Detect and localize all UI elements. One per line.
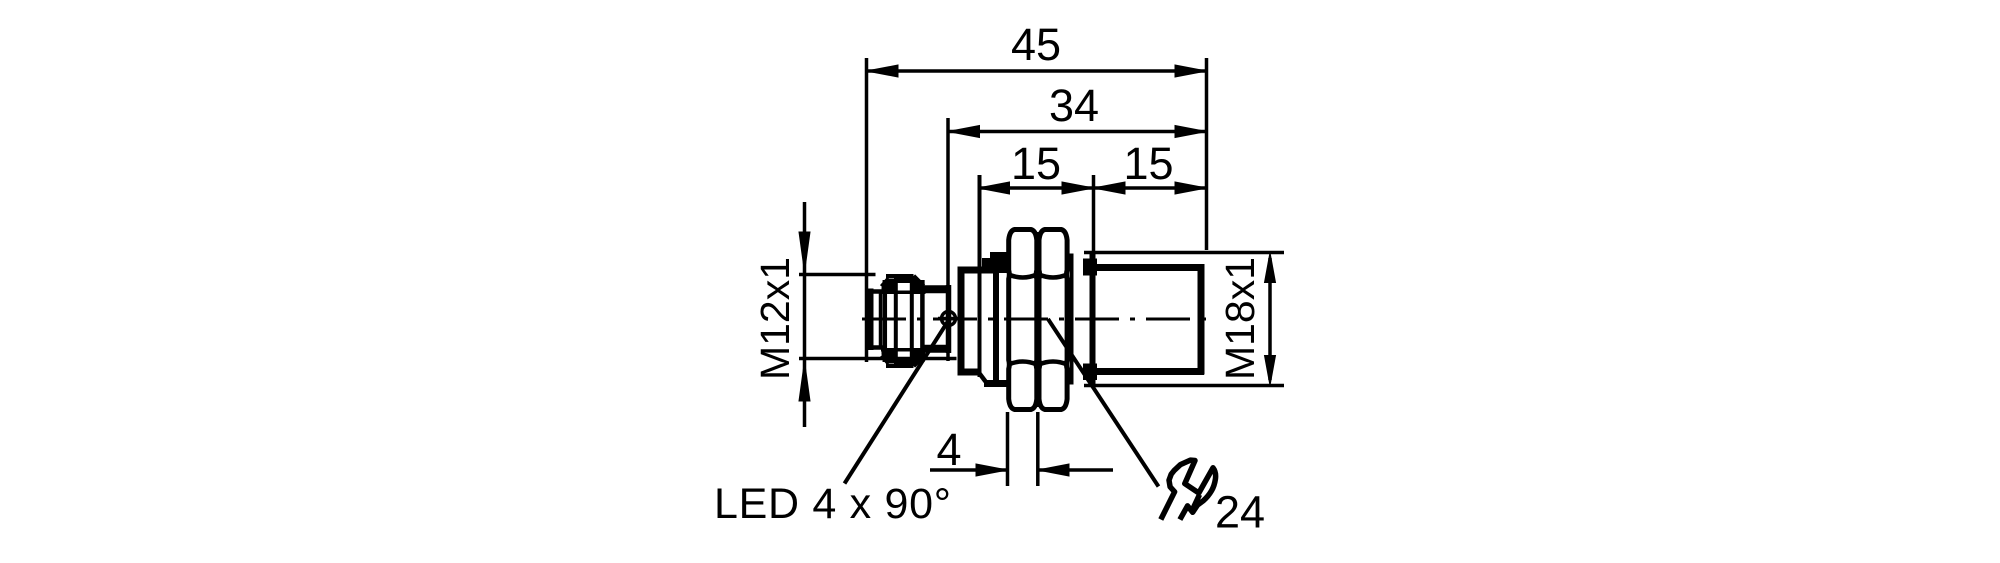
- svg-text:15: 15: [1011, 138, 1061, 189]
- svg-text:LED 4 x 90°: LED 4 x 90°: [714, 480, 952, 528]
- svg-text:M18x1: M18x1: [1217, 257, 1263, 380]
- svg-text:4: 4: [936, 424, 961, 475]
- svg-text:M12x1: M12x1: [752, 257, 798, 380]
- svg-text:15: 15: [1123, 138, 1173, 189]
- svg-text:34: 34: [1049, 80, 1099, 131]
- svg-text:24: 24: [1215, 487, 1265, 538]
- svg-text:45: 45: [1011, 19, 1061, 70]
